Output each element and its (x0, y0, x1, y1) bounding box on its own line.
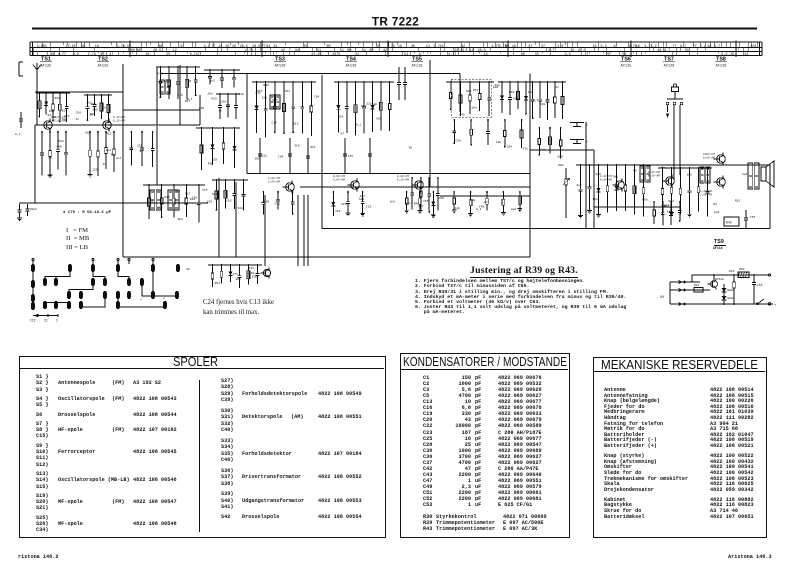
svg-text:R12: R12 (106, 132, 112, 135)
svg-text:S17: S17 (272, 99, 278, 102)
svg-text:10n: 10n (660, 167, 666, 170)
svg-text:S48: S48 (58, 140, 64, 143)
svg-text:35: 35 (226, 45, 230, 49)
svg-text:15k: 15k (348, 154, 354, 158)
svg-text:S13: S13 (190, 198, 196, 201)
svg-text:4n7: 4n7 (360, 195, 366, 198)
svg-text:60: 60 (521, 53, 525, 57)
svg-text:8p2: 8p2 (106, 149, 112, 152)
svg-text:12: 12 (173, 49, 177, 53)
svg-text:S35: S35 (92, 109, 98, 112)
svg-text:2.78: 2.78 (88, 53, 96, 57)
svg-text:35: 35 (570, 49, 574, 53)
svg-text:R57: R57 (473, 89, 479, 92)
svg-text:0,8V-AM: 0,8V-AM (333, 178, 345, 181)
svg-text:51: 51 (274, 45, 278, 49)
svg-text:28.5: 28.5 (252, 45, 260, 49)
svg-text:OA81: OA81 (727, 297, 734, 300)
svg-text:1n: 1n (102, 106, 106, 109)
svg-text:S11: S11 (540, 148, 546, 151)
svg-text:60: 60 (505, 45, 509, 49)
svg-text:42: 42 (613, 45, 617, 49)
svg-text:25: 25 (303, 45, 307, 49)
svg-text:1n: 1n (555, 86, 559, 89)
svg-text:C51: C51 (275, 203, 281, 206)
svg-text:10n: 10n (592, 198, 598, 201)
svg-text:0,1: 0,1 (356, 123, 362, 126)
svg-text:R68: R68 (361, 105, 367, 108)
svg-text:40: 40 (131, 49, 135, 53)
svg-text:60: 60 (137, 49, 141, 53)
svg-text:90mV: 90mV (30, 208, 37, 211)
svg-text:47k: 47k (523, 147, 529, 151)
svg-text:R26: R26 (466, 90, 472, 93)
svg-text:R41: R41 (694, 284, 700, 287)
svg-text:9.7: 9.7 (664, 49, 670, 53)
svg-text:R49: R49 (509, 91, 515, 94)
svg-text:60: 60 (347, 49, 351, 53)
svg-text:C23: C23 (366, 206, 372, 209)
svg-text:R60: R60 (642, 198, 648, 201)
svg-text:1k5: 1k5 (341, 202, 347, 206)
svg-text:C50: C50 (76, 112, 82, 115)
svg-text:S12: S12 (293, 123, 299, 126)
svg-text:7: 7 (289, 49, 291, 53)
svg-text:C32: C32 (186, 80, 192, 83)
svg-text:68p: 68p (372, 103, 378, 106)
svg-text:R30: R30 (558, 164, 564, 167)
svg-text:0,8V-AM: 0,8V-AM (703, 156, 715, 159)
svg-text:C59: C59 (278, 156, 284, 159)
svg-text:51: 51 (340, 49, 344, 53)
svg-text:60: 60 (376, 45, 380, 49)
svg-text:82: 82 (140, 150, 144, 153)
svg-text:3k9: 3k9 (294, 144, 300, 148)
svg-text:R25: R25 (212, 98, 218, 101)
svg-text:AF125: AF125 (41, 65, 52, 69)
svg-text:4.77: 4.77 (548, 49, 556, 53)
svg-text:o: o (163, 297, 165, 300)
svg-text:1n: 1n (89, 114, 93, 117)
svg-text:R2: R2 (713, 203, 717, 206)
svg-text:2,6V-AM: 2,6V-AM (700, 193, 712, 196)
svg-text:R67: R67 (257, 90, 263, 93)
svg-text:25: 25 (606, 53, 610, 57)
svg-text:13: 13 (426, 45, 430, 49)
svg-text:88: 88 (158, 45, 162, 49)
svg-text:51: 51 (593, 45, 597, 49)
svg-text:23.25: 23.25 (454, 49, 464, 53)
svg-text:OA81: OA81 (727, 289, 734, 292)
svg-text:5.2: 5.2 (601, 45, 607, 49)
svg-text:-: - (774, 275, 776, 279)
svg-text:5.2: 5.2 (204, 45, 210, 49)
svg-text:51: 51 (362, 49, 366, 53)
svg-text:8p2: 8p2 (528, 91, 534, 94)
svg-text:13: 13 (218, 45, 222, 49)
svg-text:55: 55 (685, 49, 689, 53)
svg-text:III: III (30, 319, 36, 323)
svg-text:2,6V-AM: 2,6V-AM (268, 180, 280, 183)
svg-text:4n7: 4n7 (405, 202, 411, 205)
svg-text:S54: S54 (664, 205, 670, 208)
svg-text:4n7: 4n7 (483, 201, 489, 204)
svg-text:10n: 10n (455, 207, 461, 210)
svg-text:10n: 10n (471, 106, 477, 109)
svg-text:6,1V-AM: 6,1V-AM (397, 178, 409, 181)
svg-text:28.5: 28.5 (578, 49, 586, 53)
svg-text:C50: C50 (264, 201, 270, 204)
svg-text:1n: 1n (103, 163, 107, 166)
svg-text:42: 42 (461, 45, 465, 49)
svg-text:13: 13 (484, 53, 488, 57)
svg-text:25: 25 (730, 53, 734, 57)
svg-text:1k5: 1k5 (390, 200, 396, 204)
svg-text:R36: R36 (208, 163, 214, 166)
svg-text:68p: 68p (85, 131, 91, 134)
svg-text:C17: C17 (185, 193, 191, 196)
svg-text:13: 13 (744, 53, 748, 57)
svg-text:C54: C54 (314, 95, 320, 98)
svg-text:7: 7 (586, 53, 588, 57)
svg-text:1n: 1n (175, 202, 179, 205)
svg-text:35: 35 (43, 45, 47, 49)
svg-text:23.25: 23.25 (66, 45, 76, 49)
svg-text:8p2: 8p2 (511, 208, 517, 211)
svg-text:28.5: 28.5 (153, 49, 161, 53)
svg-text:3.9: 3.9 (73, 53, 79, 57)
svg-text:R53: R53 (49, 110, 55, 113)
svg-text:S21: S21 (359, 198, 365, 201)
svg-text:R32: R32 (263, 84, 269, 87)
svg-text:R34: R34 (248, 267, 254, 270)
svg-text:47k: 47k (64, 114, 70, 118)
svg-text:19: 19 (95, 45, 99, 49)
svg-text:2.78: 2.78 (122, 45, 130, 49)
svg-text:5p6: 5p6 (202, 189, 208, 192)
svg-text:94: 94 (81, 45, 85, 49)
svg-text:19: 19 (398, 45, 402, 49)
svg-text:R29: R29 (212, 159, 218, 162)
svg-text:25: 25 (232, 45, 236, 49)
svg-text:4n7: 4n7 (418, 205, 424, 208)
svg-text:19: 19 (512, 45, 516, 49)
svg-text:R62: R62 (51, 116, 57, 119)
svg-text:42: 42 (281, 49, 285, 53)
svg-text:220: 220 (207, 201, 213, 204)
svg-text:10n: 10n (239, 93, 245, 96)
svg-text:C61: C61 (285, 90, 291, 93)
svg-text:C46: C46 (177, 94, 183, 97)
svg-text:23.25: 23.25 (311, 53, 321, 57)
svg-text:25: 25 (166, 53, 170, 57)
svg-text:55: 55 (535, 53, 539, 57)
svg-text:47: 47 (541, 45, 545, 49)
svg-text:42: 42 (383, 49, 387, 53)
svg-text:10n: 10n (496, 141, 502, 144)
svg-text:220: 220 (199, 107, 205, 110)
svg-text:R31: R31 (215, 282, 221, 285)
svg-text:5p6: 5p6 (62, 118, 68, 121)
svg-text:5.2: 5.2 (700, 45, 706, 49)
svg-text:S55: S55 (255, 158, 261, 161)
svg-text:R42: R42 (726, 221, 732, 225)
svg-text:8p2: 8p2 (742, 173, 748, 176)
svg-text:35: 35 (391, 45, 395, 49)
svg-text:28.5: 28.5 (332, 53, 340, 57)
svg-text:3k9: 3k9 (335, 209, 341, 213)
svg-text:47: 47 (196, 53, 200, 57)
svg-text:II: II (44, 319, 48, 323)
svg-text:R40: R40 (739, 268, 745, 271)
svg-text:TR 7222: TR 7222 (372, 14, 419, 28)
svg-text:+: + (774, 304, 776, 308)
svg-text:47: 47 (109, 53, 113, 57)
svg-text:40: 40 (411, 45, 415, 49)
svg-text:16: 16 (636, 45, 640, 49)
svg-text:5p6: 5p6 (596, 173, 602, 176)
svg-text:51: 51 (317, 49, 321, 53)
svg-text:77: 77 (211, 45, 215, 49)
svg-text:94: 94 (180, 45, 184, 49)
svg-text:S31: S31 (62, 110, 68, 113)
svg-text:1k5: 1k5 (262, 96, 268, 100)
svg-text:AF116: AF116 (412, 65, 423, 69)
svg-text:1k5: 1k5 (148, 200, 154, 204)
svg-text:6k8: 6k8 (667, 210, 673, 214)
svg-text:64: 64 (658, 49, 662, 53)
svg-text:1n: 1n (219, 110, 223, 113)
svg-text:94: 94 (295, 49, 299, 53)
svg-text:9.7: 9.7 (714, 45, 720, 49)
svg-text:R11: R11 (310, 146, 316, 149)
svg-text:94: 94 (266, 45, 270, 49)
svg-text:0,8V-AM: 0,8V-AM (600, 178, 612, 181)
svg-text:3k9: 3k9 (613, 175, 619, 179)
svg-text:R27: R27 (185, 100, 191, 103)
svg-text:S10: S10 (249, 272, 255, 275)
svg-text:220: 220 (92, 169, 98, 172)
svg-text:AF125: AF125 (98, 65, 109, 69)
svg-text:S15: S15 (212, 193, 218, 196)
svg-text:8p2: 8p2 (210, 80, 216, 83)
svg-text:AF126: AF126 (275, 65, 286, 69)
svg-text:0,1: 0,1 (533, 99, 539, 102)
svg-text:2k2: 2k2 (86, 101, 92, 105)
svg-text:C69: C69 (507, 146, 513, 149)
svg-text:S65: S65 (376, 118, 382, 121)
svg-text:C58: C58 (456, 140, 462, 143)
svg-text:1k5: 1k5 (687, 173, 693, 177)
svg-text:6k8: 6k8 (558, 154, 564, 158)
svg-text:94: 94 (707, 45, 711, 49)
svg-text:3.9: 3.9 (565, 53, 571, 57)
svg-text:10n: 10n (221, 100, 227, 103)
svg-text:C17: C17 (271, 122, 277, 125)
svg-text:22p: 22p (262, 154, 268, 157)
svg-text:104: 104 (750, 45, 756, 49)
svg-text:77: 77 (672, 45, 676, 49)
svg-text:220: 220 (493, 86, 499, 89)
svg-text:6k8: 6k8 (178, 217, 184, 221)
svg-text:R5: R5 (111, 154, 115, 157)
svg-text:AC128: AC128 (716, 65, 727, 69)
svg-text:15k: 15k (338, 115, 344, 119)
svg-text:- UV: - UV (656, 296, 665, 300)
svg-text:77: 77 (693, 45, 697, 49)
svg-text:4.77: 4.77 (58, 53, 66, 57)
svg-text:1n: 1n (76, 118, 80, 121)
svg-text:AC125: AC125 (621, 65, 632, 69)
svg-text:6k8: 6k8 (540, 102, 546, 106)
svg-text:2.78: 2.78 (245, 49, 253, 53)
svg-text:21: 21 (440, 45, 444, 49)
svg-text:10n: 10n (252, 276, 258, 279)
svg-text:60: 60 (327, 45, 331, 49)
svg-text:S46: S46 (56, 146, 62, 149)
svg-text:15k: 15k (137, 143, 143, 147)
svg-text:32: 32 (186, 268, 190, 271)
svg-text:0,1: 0,1 (15, 133, 21, 136)
svg-text:7: 7 (737, 49, 739, 53)
svg-text:C43: C43 (158, 73, 164, 76)
svg-text:47k: 47k (233, 272, 239, 276)
svg-text:10n: 10n (207, 93, 213, 96)
svg-text:R9: R9 (633, 170, 637, 173)
svg-text:TS10: TS10 (717, 278, 724, 281)
svg-text:R15: R15 (735, 200, 741, 203)
svg-text:S6: S6 (48, 156, 52, 159)
svg-text:4.77: 4.77 (448, 53, 456, 57)
svg-text:C62: C62 (226, 200, 232, 203)
svg-text:3.9: 3.9 (557, 45, 563, 49)
svg-text:S8: S8 (409, 146, 413, 149)
svg-text:R16: R16 (164, 196, 170, 199)
svg-text:I: I (56, 319, 58, 323)
svg-text:60: 60 (369, 49, 373, 53)
svg-text:R10: R10 (55, 97, 61, 100)
svg-text:R43: R43 (729, 270, 735, 273)
svg-text:0,1: 0,1 (476, 208, 482, 211)
svg-text:C52: C52 (157, 207, 163, 210)
svg-text:4n7: 4n7 (116, 157, 122, 160)
svg-text:AF126: AF126 (346, 65, 357, 69)
svg-text:8p2: 8p2 (714, 211, 720, 214)
svg-text:C55: C55 (423, 200, 429, 203)
svg-text:S58: S58 (513, 97, 519, 100)
svg-text:R43: R43 (459, 114, 465, 117)
svg-text:C50: C50 (439, 197, 445, 200)
svg-text:R18: R18 (470, 199, 476, 202)
svg-text:4n7: 4n7 (576, 184, 582, 187)
svg-text:C55: C55 (750, 216, 756, 219)
svg-text:12: 12 (470, 49, 474, 53)
svg-text:6,1V-AM: 6,1V-AM (113, 119, 125, 122)
svg-text:AC126: AC126 (664, 65, 675, 69)
svg-text:51: 51 (404, 53, 408, 57)
svg-text:C65: C65 (757, 284, 763, 287)
svg-text:S44: S44 (238, 207, 244, 210)
svg-text:16: 16 (145, 53, 149, 57)
svg-text:10n: 10n (235, 278, 241, 281)
svg-text:47: 47 (528, 45, 532, 49)
svg-text:o: o (140, 298, 142, 301)
svg-text:S7: S7 (340, 133, 344, 136)
svg-text:5.2: 5.2 (651, 45, 657, 49)
